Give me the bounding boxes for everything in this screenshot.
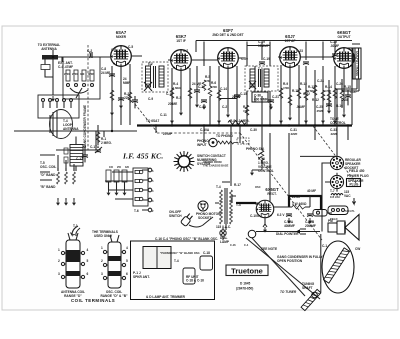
svg-text:1: 1 [101,246,103,250]
svg-text:C-4 .47MF: C-4 .47MF [58,65,73,69]
svg-text:Truetone: Truetone [231,267,263,276]
svg-text:1: 1 [58,248,60,252]
svg-text:R-17: R-17 [234,183,241,187]
svg-text:24 ME: 24 ME [101,71,110,75]
svg-text:25 MF: 25 MF [232,95,241,99]
svg-text:2700: 2700 [64,72,70,76]
svg-text:2: 2 [101,259,103,263]
svg-text:R-12: R-12 [312,98,319,102]
svg-text:C-30A: C-30A [200,128,210,132]
svg-text:T-4: T-4 [236,203,241,207]
svg-text:C-10C: C-10C [250,214,260,218]
svg-text:THE CHASSIS BASE: THE CHASSIS BASE [203,163,229,167]
svg-text:3: 3 [58,272,60,276]
svg-text:470K: 470K [88,72,94,76]
svg-text:C-12: C-12 [198,85,205,89]
svg-text:C-15: C-15 [240,92,247,96]
svg-text:C-7: C-7 [183,49,188,53]
svg-text:SEE NOTE: SEE NOTE [261,247,277,251]
svg-text:R-16: R-16 [336,104,343,108]
svg-text:250: 250 [117,166,122,169]
svg-text:C-16 C-4 "PHONO OSC" "B": C-16 C-4 "PHONO OSC" "B" BLANK OSC. [155,237,218,241]
svg-text:C-11: C-11 [160,113,167,117]
svg-text:C-16: C-16 [230,243,236,247]
svg-text:CONTROL: CONTROL [330,121,346,125]
svg-text:C-26: C-26 [336,82,343,86]
svg-text:PHONO SW.: PHONO SW. [246,147,265,151]
svg-text:R-11: R-11 [292,89,299,93]
svg-text:2: 2 [58,259,60,263]
svg-text:6.3 V: 6.3 V [277,213,285,217]
svg-text:USED ONLY: USED ONLY [94,234,113,238]
svg-text:C-30: C-30 [250,128,257,132]
svg-text:INPUT: INPUT [197,143,207,147]
svg-text:VIEWED FROM: VIEWED FROM [203,160,222,164]
svg-text:5401 PL: 5401 PL [345,209,355,213]
svg-text:R-13: R-13 [308,85,315,89]
svg-text:OPEN POSITION: OPEN POSITION [277,259,303,263]
svg-text:40 MF: 40 MF [307,189,316,193]
svg-text:COIL TERMINALS: COIL TERMINALS [71,298,115,303]
svg-text:TO 6SA7: TO 6SA7 [146,119,159,123]
svg-text:115 V.A.C.: 115 V.A.C. [216,225,231,229]
svg-text:1 MEG: 1 MEG [173,86,181,90]
svg-text:SOCKET: SOCKET [198,216,211,220]
svg-text:R-9: R-9 [283,82,288,86]
svg-text:47K: 47K [205,79,210,83]
svg-text:C-2: C-2 [222,105,227,109]
svg-text:I.F. 455 KC.: I.F. 455 KC. [122,152,163,161]
svg-text:C-14: C-14 [220,87,227,91]
svg-text:.05MF: .05MF [316,109,324,113]
svg-text:5: 5 [87,259,89,263]
svg-text:PM: PM [328,219,333,223]
svg-text:R-3: R-3 [176,96,181,100]
svg-text:6: 6 [126,272,128,276]
svg-text:D 1645: D 1645 [240,282,251,286]
svg-text:2700: 2700 [72,72,78,76]
svg-text:C-6: C-6 [111,48,116,52]
svg-text:.02MF: .02MF [290,132,298,136]
svg-text:470K: 470K [325,89,331,93]
svg-text:PLUG: PLUG [350,182,359,186]
svg-text:T-6: T-6 [134,209,139,213]
svg-text:TO TUNER: TO TUNER [280,290,297,294]
svg-text:C-17A: C-17A [90,145,100,149]
svg-text:OUTPUT TRANS: OUTPUT TRANS [355,51,359,76]
svg-text:C-27: C-27 [350,90,357,94]
svg-text:C-19: C-19 [263,57,270,61]
svg-text:OSC: OSC [255,185,261,189]
svg-text:6: 6 [87,272,89,276]
svg-text:470K: 470K [283,86,289,90]
svg-text:RECT.: RECT. [267,192,276,196]
svg-text:C-13: C-13 [199,105,206,109]
svg-text:T-3: T-3 [258,67,263,71]
svg-text:.02MF: .02MF [330,44,339,48]
svg-text:"D" BAND: "D" BAND [40,173,56,177]
svg-text:TO PHONO: TO PHONO [216,134,233,138]
svg-text:25 MF: 25 MF [163,132,172,136]
svg-text:C-22: C-22 [303,92,310,96]
svg-text:DIAL POINTER: DIAL POINTER [276,232,299,236]
svg-text:22K: 22K [124,96,131,100]
svg-text:4: 4 [126,246,128,250]
svg-text:C-18: C-18 [203,251,210,255]
svg-text:C-18 & C-16: C-18 & C-16 [186,278,204,282]
svg-text:OSC. COIL: OSC. COIL [40,165,56,169]
svg-text:R-4: R-4 [173,82,178,86]
svg-text:2ND DET & 2ND DET: 2ND DET & 2ND DET [212,33,243,37]
svg-text:OUTPUT: OUTPUT [337,35,350,39]
svg-text:.01MF: .01MF [296,105,305,109]
svg-text:ANTENNA: ANTENNA [63,127,79,131]
svg-text:T-7: T-7 [330,189,335,193]
svg-text:C-25: C-25 [316,105,323,109]
svg-text:4: 4 [87,248,89,252]
svg-text:1ST IF: 1ST IF [176,39,186,43]
svg-text:C-5: C-5 [128,45,133,49]
svg-text:C-1: C-1 [322,244,327,248]
svg-text:C-21: C-21 [272,95,279,99]
svg-text:"PHONO OSC" "B" BLANK OSC.: "PHONO OSC" "B" BLANK OSC. [160,251,201,255]
svg-text:VAC: VAC [344,194,351,198]
svg-text:3: 3 [101,272,103,276]
svg-text:"B" BAND: "B" BAND [40,185,56,189]
svg-text:1 W 460Ω: 1 W 460Ω [292,202,307,206]
svg-text:R-7: R-7 [243,105,248,109]
svg-text:POWER PLUG: POWER PLUG [347,174,369,178]
svg-text:R-12: R-12 [300,82,307,86]
svg-text:20MMF: 20MMF [305,224,316,228]
svg-text:1ST AF: 1ST AF [285,39,296,43]
svg-text:470K: 470K [211,85,217,89]
svg-text:C-9: C-9 [148,97,153,101]
svg-text:RANGE "D" & "B": RANGE "D" & "B" [100,294,128,298]
svg-text:T-4: T-4 [174,259,179,263]
svg-text:MIXER: MIXER [116,35,127,39]
svg-text:C-24: C-24 [317,79,324,83]
svg-text:C-17: C-17 [76,157,83,161]
svg-text:C-2: C-2 [87,49,92,53]
svg-text:2 MEG.: 2 MEG. [101,141,112,145]
svg-text:ANTENNA: ANTENNA [41,47,57,51]
svg-text:& D LAMP ANT. TRIMMER: & D LAMP ANT. TRIMMER [146,295,186,299]
svg-text:R-14: R-14 [325,85,332,89]
svg-text:100: 100 [109,166,114,169]
svg-text:115 VAC: 115 VAC [330,195,340,199]
svg-text:C-31: C-31 [290,128,297,132]
svg-text:.02MF: .02MF [330,132,338,136]
svg-text:C-4: C-4 [244,243,249,247]
svg-text:460: 460 [255,202,261,206]
svg-text:SPKR ANT.: SPKR ANT. [133,275,150,279]
svg-text:R-5: R-5 [205,75,210,79]
svg-text:CW: CW [355,247,360,251]
svg-text:10MMF: 10MMF [258,44,269,48]
svg-text:R-8 2.2 MEG.: R-8 2.2 MEG. [230,119,250,123]
svg-text:GANG CONDENSER FRAME: GANG CONDENSER FRAME [83,105,87,148]
svg-text:SWITCH: SWITCH [169,214,182,218]
svg-text:RANGE "D": RANGE "D" [64,294,82,298]
svg-text:LAMP: LAMP [220,240,230,244]
svg-text:FIELD 450: FIELD 450 [349,169,365,173]
svg-text:C-33: C-33 [330,128,337,132]
svg-text:MMF: MMF [123,81,130,85]
svg-text:320: 320 [125,166,130,169]
svg-text:47K: 47K [243,109,248,113]
svg-text:C-28: C-28 [341,98,348,102]
svg-text:SHAFT: SHAFT [302,286,313,290]
svg-text:C-20: C-20 [241,57,248,61]
svg-text:T-4: T-4 [216,185,221,189]
svg-text:C-23: C-23 [296,49,303,53]
svg-text:R-15: R-15 [344,85,351,89]
svg-text:40MMF: 40MMF [284,224,295,228]
svg-text:CONTROL: CONTROL [258,169,274,173]
svg-text:20 ME: 20 ME [168,102,177,106]
svg-text:600 MMF.: 600 MMF. [254,98,268,102]
svg-text:T-1: T-1 [73,224,78,228]
svg-text:5: 5 [126,259,128,263]
svg-text:R-6: R-6 [211,81,216,85]
svg-text:(28478-650): (28478-650) [236,287,253,291]
svg-text:C-10: C-10 [166,92,173,96]
svg-text:20 MF: 20 MF [292,195,301,199]
svg-text:390: 390 [80,72,85,76]
svg-text:T-2: T-2 [148,63,152,67]
